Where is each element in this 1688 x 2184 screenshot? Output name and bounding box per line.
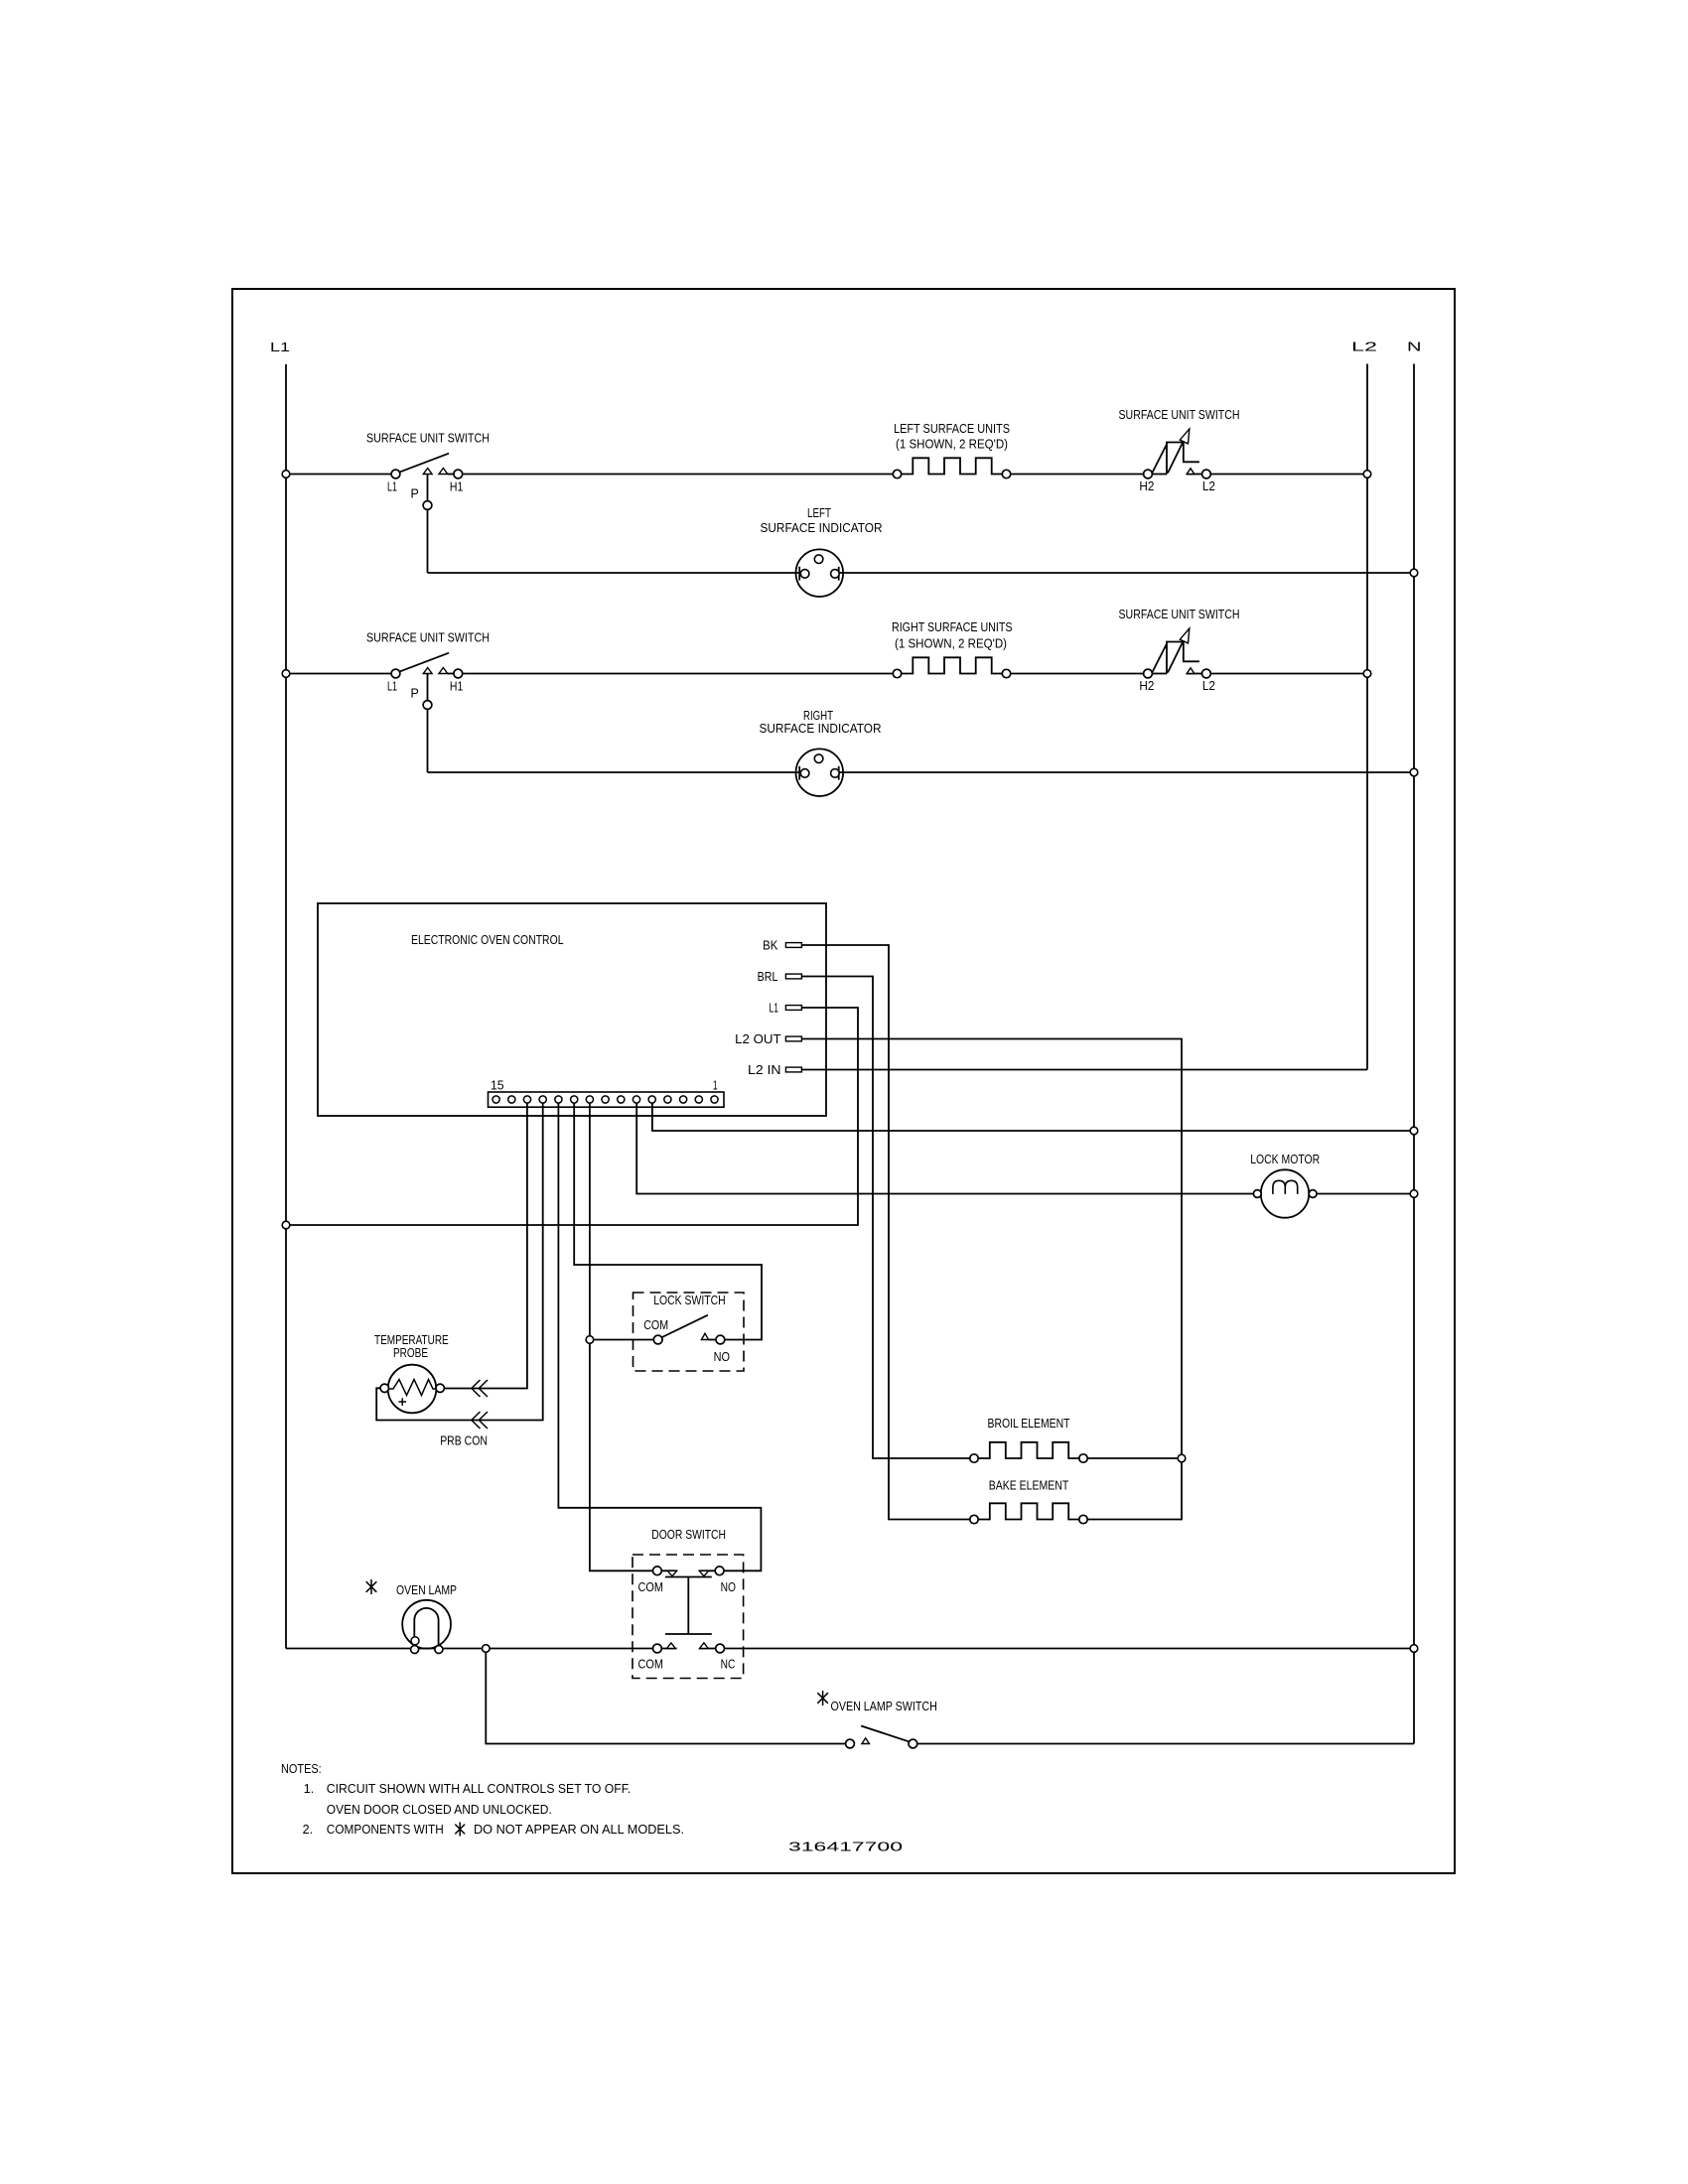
node L2 <box>1351 341 1377 354</box>
svg-text:RIGHT SURFACE UNITS: RIGHT SURFACE UNITS <box>892 620 1013 634</box>
svg-text:LOCK MOTOR: LOCK MOTOR <box>1250 1153 1320 1166</box>
switch S1 LOCK SWITCH <box>633 1293 745 1371</box>
node junction L1 bus row 2 <box>282 670 290 678</box>
control unit U1 ELECTRONIC OVEN CONTROL box <box>318 903 826 1116</box>
wire door switch NC to N bus <box>699 1648 1414 1650</box>
svg-text:ELECTRONIC OVEN CONTROL: ELECTRONIC OVEN CONTROL <box>411 933 564 947</box>
svg-text:L2 OUT: L2 OUT <box>735 1032 781 1046</box>
svg-text:L2: L2 <box>1351 341 1377 354</box>
svg-text:TEMPERATURE: TEMPERATURE <box>374 1333 449 1347</box>
pin L1 of electronic oven control <box>770 1002 802 1016</box>
wire terminal 9 to door switch COM <box>590 1103 652 1570</box>
svg-text:BAKE ELEMENT: BAKE ELEMENT <box>989 1479 1069 1493</box>
node junction terminal 9 wire at lock switch COM <box>586 1336 594 1344</box>
svg-text:OVEN DOOR CLOSED AND UNLOCKED.: OVEN DOOR CLOSED AND UNLOCKED. <box>327 1803 552 1817</box>
svg-text:BK: BK <box>763 939 778 953</box>
symbol asterisk (note 2) <box>455 1823 465 1837</box>
svg-text:COMPONENTS WITH: COMPONENTS WITH <box>327 1823 444 1837</box>
svg-text:L1: L1 <box>770 1002 779 1016</box>
svg-text:SURFACE UNIT SWITCH: SURFACE UNIT SWITCH <box>366 631 490 645</box>
svg-text:SURFACE INDICATOR: SURFACE INDICATOR <box>760 722 882 736</box>
svg-text:H2: H2 <box>1139 479 1154 493</box>
node junction L1 bus at EOC L1 wire <box>282 1221 290 1229</box>
svg-text:LEFT: LEFT <box>807 506 831 520</box>
wire P contact to right surface indicator <box>428 771 800 773</box>
resistor BAKE ELEMENT <box>970 1479 1087 1524</box>
wire terminal 10 to lock switch NO <box>574 1103 762 1340</box>
svg-text:OVEN LAMP: OVEN LAMP <box>396 1583 457 1597</box>
svg-text:LOCK SWITCH: LOCK SWITCH <box>653 1294 726 1307</box>
svg-text:P: P <box>411 687 419 701</box>
pin BK of electronic oven control <box>763 939 801 953</box>
lamp DS1 OVEN LAMP <box>396 1583 457 1654</box>
node junction N bus lock motor <box>1410 1190 1418 1198</box>
node junction oven lamp row to lamp switch drop <box>483 1645 491 1653</box>
svg-text:CIRCUIT SHOWN WITH ALL CONTROL: CIRCUIT SHOWN WITH ALL CONTROLS SET TO O… <box>327 1782 632 1796</box>
motor M1 LOCK MOTOR <box>1250 1153 1320 1218</box>
switch S3 OVEN LAMP SWITCH <box>831 1700 937 1748</box>
svg-text:SURFACE UNIT SWITCH: SURFACE UNIT SWITCH <box>1119 408 1240 422</box>
wire switch H1 to left surface units row 1 <box>463 474 894 476</box>
symbol asterisk (oven lamp switch) <box>817 1691 828 1706</box>
node junction L2 bus row 1 <box>1363 471 1371 478</box>
wire broil element to L2 OUT riser <box>1088 1457 1182 1459</box>
svg-text:PROBE: PROBE <box>393 1346 428 1360</box>
svg-text:(1 SHOWN, 2 REQ'D): (1 SHOWN, 2 REQ'D) <box>895 637 1007 651</box>
svg-text:L2: L2 <box>1202 479 1215 493</box>
node junction N bus indicator row 2 <box>1410 768 1418 776</box>
svg-text:P: P <box>411 487 419 501</box>
svg-text:H1: H1 <box>450 480 463 494</box>
svg-text:L1: L1 <box>387 480 397 494</box>
wire lock motor to N bus <box>1317 1193 1414 1195</box>
resistor BROIL ELEMENT <box>970 1417 1087 1462</box>
resistor LEFT SURFACE UNITS (heating element) <box>893 422 1010 478</box>
svg-text:L1: L1 <box>387 680 397 694</box>
svg-text:SURFACE UNIT SWITCH: SURFACE UNIT SWITCH <box>366 432 490 446</box>
wire L2 OUT pin to elements <box>801 1039 1182 1520</box>
svg-text:COM: COM <box>638 1580 663 1594</box>
svg-text:H2: H2 <box>1139 679 1154 693</box>
svg-text:316417700: 316417700 <box>788 1841 903 1854</box>
switch SURFACE UNIT SWITCH (right infinite switch, row 2) <box>1119 608 1240 693</box>
svg-text:15: 15 <box>491 1079 504 1093</box>
node junction N bus oven lamp row <box>1410 1645 1418 1653</box>
wire terminal 6 to lock motor <box>636 1103 1253 1194</box>
svg-text:LEFT SURFACE UNITS: LEFT SURFACE UNITS <box>894 422 1010 436</box>
wire left surface indicator to N bus <box>839 572 1414 574</box>
wire P contact to left surface indicator <box>428 572 800 574</box>
connector J1 terminal strip pins 15..1 <box>489 1079 725 1108</box>
svg-text:L2: L2 <box>1202 679 1215 693</box>
pin L2 OUT of electronic oven control <box>735 1032 801 1046</box>
node junction L2 bus row 2 <box>1363 670 1371 678</box>
svg-text:RIGHT: RIGHT <box>803 709 833 723</box>
svg-text:N: N <box>1407 341 1422 354</box>
wire terminal 12 to temperature probe return <box>376 1103 543 1421</box>
svg-text:NC: NC <box>721 1657 736 1671</box>
svg-text:SURFACE INDICATOR: SURFACE INDICATOR <box>761 521 883 535</box>
node junction N bus indicator row 1 <box>1410 569 1418 577</box>
note NOTES block <box>281 1762 684 1837</box>
svg-text:DOOR SWITCH: DOOR SWITCH <box>651 1528 726 1542</box>
svg-text:OVEN LAMP SWITCH: OVEN LAMP SWITCH <box>831 1700 937 1713</box>
wire switch L2 to L2 bus row 1 <box>1210 474 1367 476</box>
pin L2 IN of electronic oven control <box>748 1063 801 1077</box>
svg-text:1.: 1. <box>304 1782 314 1796</box>
wire terminal 5 to N bus <box>652 1103 1414 1131</box>
resistor RIGHT SURFACE UNITS (heating element) <box>892 620 1013 678</box>
svg-text:NOTES:: NOTES: <box>281 1762 322 1776</box>
node L1 <box>270 341 290 354</box>
svg-text:NO: NO <box>721 1580 737 1594</box>
wire L1 bus to surface unit switch row 2 <box>286 673 391 675</box>
switch SURFACE UNIT SWITCH (left, row 1) <box>366 432 490 574</box>
wire L1 bus to oven lamp and door switch COM <box>286 1648 677 1650</box>
wire BRL pin to broil element <box>801 977 969 1459</box>
wire BK pin to bake element <box>801 945 969 1520</box>
connector PRB CON chevrons (probe lead) <box>440 1380 488 1448</box>
wire oven lamp switch to N bus <box>917 1743 1414 1745</box>
wire terminal 13 to temperature probe <box>444 1103 527 1389</box>
svg-text:NO: NO <box>714 1350 731 1364</box>
wire junction to lock switch COM <box>590 1339 653 1341</box>
wire L2 bus <box>1366 364 1368 1070</box>
node N <box>1407 341 1422 354</box>
svg-text:BROIL ELEMENT: BROIL ELEMENT <box>988 1417 1070 1431</box>
wire switch L2 to L2 bus row 2 <box>1210 673 1367 675</box>
lamp LEFT SURFACE INDICATOR <box>761 506 883 597</box>
lamp RIGHT SURFACE INDICATOR <box>760 709 882 796</box>
wire surface units to surface unit switch (right) row 2 <box>1011 673 1144 675</box>
wire L1 pin to L1 bus <box>286 1008 858 1225</box>
wire junction to oven lamp switch <box>486 1649 845 1744</box>
switch SURFACE UNIT SWITCH (left, row 2) <box>366 631 490 773</box>
pin BRL of electronic oven control <box>758 970 802 984</box>
svg-text:PRB CON: PRB CON <box>440 1434 488 1448</box>
svg-text:(1 SHOWN, 2 REQ'D): (1 SHOWN, 2 REQ'D) <box>896 438 1008 452</box>
switch S2 DOOR SWITCH <box>633 1528 744 1679</box>
wire terminal 11 to door switch NO <box>558 1103 761 1570</box>
node junction L2 OUT riser at broil element <box>1178 1454 1186 1462</box>
wire surface units to surface unit switch (right) row 1 <box>1011 474 1144 476</box>
svg-text:SURFACE UNIT SWITCH: SURFACE UNIT SWITCH <box>1119 608 1240 621</box>
label part number 316417700 <box>788 1841 903 1854</box>
wire L1 bus <box>285 364 287 1649</box>
node junction L1 bus row 1 <box>282 471 290 478</box>
svg-text:DO NOT APPEAR ON ALL MODELS.: DO NOT APPEAR ON ALL MODELS. <box>474 1823 684 1837</box>
wire N bus <box>1413 364 1415 1744</box>
svg-text:COM: COM <box>638 1657 663 1671</box>
svg-text:BRL: BRL <box>758 970 778 984</box>
svg-text:L2 IN: L2 IN <box>748 1063 781 1077</box>
switch SURFACE UNIT SWITCH (right infinite switch, row 1) <box>1119 408 1240 493</box>
node junction N bus terminal 5 wire <box>1410 1127 1418 1135</box>
wire L2 IN pin to L2 bus <box>801 1069 1367 1071</box>
symbol asterisk (oven lamp) <box>366 1579 377 1594</box>
wire switch H1 to right surface units row 2 <box>463 673 894 675</box>
svg-text:1: 1 <box>713 1079 718 1093</box>
wire right surface indicator to N bus <box>839 771 1414 773</box>
svg-text:L1: L1 <box>270 341 290 354</box>
resistor RT1 TEMPERATURE PROBE <box>374 1333 449 1413</box>
wire L1 bus to surface unit switch row 1 <box>286 474 391 476</box>
svg-text:COM: COM <box>643 1318 668 1332</box>
svg-text:2.: 2. <box>303 1823 313 1837</box>
svg-text:H1: H1 <box>450 680 463 694</box>
